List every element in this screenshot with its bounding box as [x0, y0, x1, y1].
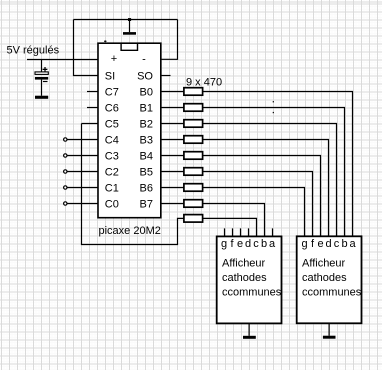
svg-text:g: g: [221, 238, 227, 250]
display 1 pin stub a: [272, 228, 274, 236]
capacitor C1 bottom plate: [35, 77, 48, 80]
wire SO stub: [161, 75, 171, 77]
svg-text:B5: B5: [140, 167, 153, 179]
svg-text:a: a: [349, 238, 356, 250]
connector C0: [64, 202, 67, 205]
wire B0 to R1: [161, 91, 184, 93]
svg-text:C3: C3: [105, 151, 119, 163]
ground bar display 2: [323, 336, 336, 339]
svg-text:picaxe 20M2: picaxe 20M2: [99, 225, 161, 237]
svg-text:g: g: [301, 238, 307, 250]
svg-text:C4: C4: [105, 135, 119, 147]
wire top ground rail: [74, 19, 178, 21]
speck artifact 1: [104, 40, 107, 42]
resistor R9: [184, 215, 203, 223]
svg-text:B1: B1: [140, 103, 153, 115]
display 1 pin stub g: [224, 228, 226, 236]
display U2 box afficheur 1: [217, 236, 282, 323]
svg-text:b: b: [261, 238, 267, 250]
svg-text:e: e: [237, 238, 243, 250]
wire R9 output to display 1 pin c: [203, 218, 257, 236]
ground bar display 1: [243, 336, 256, 339]
ground stem top rail: [129, 20, 131, 33]
wire C5 to bus: [82, 123, 99, 125]
svg-text:C5: C5: [105, 119, 119, 131]
svg-text:cathodes: cathodes: [302, 272, 347, 284]
svg-text:cathodes: cathodes: [222, 272, 267, 284]
wire R4 output to display 2 pin d: [203, 140, 329, 237]
resistor R6: [184, 168, 203, 176]
wire R1 output to display 2 pin a: [203, 92, 353, 237]
wire capacitor stem bottom: [41, 80, 43, 96]
wire C4 from connector: [67, 139, 98, 141]
wire B3 to R4: [161, 139, 184, 141]
svg-text:5V régulés: 5V régulés: [7, 45, 60, 57]
svg-text:B7: B7: [140, 199, 153, 211]
svg-text:B6: B6: [140, 183, 153, 195]
resistor R8: [184, 200, 203, 208]
wire 5V supply rail to + pin: [27, 59, 98, 61]
svg-text:c: c: [334, 238, 340, 250]
svg-text:Afficheur: Afficheur: [222, 258, 266, 270]
wire B7 to R8: [161, 203, 184, 205]
svg-text:C0: C0: [105, 199, 119, 211]
capacitor plus sign: [43, 67, 48, 72]
ground bar top rail: [123, 32, 136, 35]
wire C6 stub: [87, 107, 98, 109]
resistor R4: [184, 136, 203, 144]
junction dot top rail: [128, 18, 131, 21]
wire right vertical to - pin: [161, 20, 178, 60]
svg-text:B0: B0: [140, 87, 153, 99]
svg-text:d: d: [325, 238, 331, 250]
wire B1 to R2: [161, 107, 184, 109]
svg-text:B3: B3: [140, 135, 153, 147]
svg-text:ccommunes: ccommunes: [302, 287, 362, 299]
capacitor minus sign: [43, 81, 48, 83]
wire R6 output to display 2 pin f: [203, 172, 313, 237]
wire capacitor stem top: [41, 60, 43, 73]
svg-text:C6: C6: [105, 103, 119, 115]
wire R8 output to display 1 pin b: [203, 204, 265, 237]
wire B2 to R3: [161, 123, 184, 125]
wire R5 output to display 2 pin e: [203, 156, 321, 237]
IC notch: [121, 44, 137, 51]
connector C3: [64, 154, 67, 157]
capacitor C1 top plate (+): [35, 72, 48, 75]
wire R7 output to display 2 pin g: [203, 188, 305, 237]
svg-text:ccommunes: ccommunes: [222, 287, 282, 299]
speck artifact 3: [273, 112, 274, 113]
op IC U1 picaxe 20M2 box: [98, 43, 161, 218]
wire bus C5 down under IC to resistor R9: [82, 124, 184, 245]
svg-text:+: +: [111, 53, 117, 65]
display 1 pin stub f: [232, 228, 234, 236]
resistor R5: [184, 152, 203, 160]
svg-text:SO: SO: [137, 71, 153, 83]
svg-text:d: d: [245, 238, 251, 250]
svg-text:b: b: [341, 238, 347, 250]
svg-text:C1: C1: [105, 183, 119, 195]
svg-text:C7: C7: [105, 87, 119, 99]
wire C0 from connector: [67, 203, 98, 205]
display 1 pin stub e: [240, 228, 242, 236]
wire R2 output to display 2 pin b: [203, 108, 345, 237]
ground bar capacitor: [35, 96, 48, 99]
wire C2 from connector: [67, 171, 98, 173]
ground stem display 2: [328, 323, 330, 335]
ground stem display 1: [248, 323, 250, 335]
wire B6 to R7: [161, 187, 184, 189]
wire left vertical to SI: [74, 20, 99, 76]
resistor R1: [184, 88, 203, 96]
connector C2: [64, 170, 67, 173]
wire B4 to R5: [161, 155, 184, 157]
wire C1 from connector: [67, 187, 98, 189]
display 1 pin stub d: [248, 228, 250, 236]
resistor R7: [184, 184, 203, 192]
resistor R2: [184, 104, 203, 112]
svg-text:C2: C2: [105, 167, 119, 179]
svg-text:SI: SI: [105, 71, 115, 83]
wire C7 stub: [87, 91, 98, 93]
connector C4: [64, 138, 67, 141]
wire C3 from connector: [67, 155, 98, 157]
wire R3 output to display 2 pin c: [203, 124, 337, 237]
svg-text:Afficheur: Afficheur: [302, 258, 346, 270]
wire B5 to R6: [161, 171, 184, 173]
svg-text:B4: B4: [140, 151, 153, 163]
svg-text:a: a: [269, 238, 276, 250]
speck artifact 2: [273, 101, 274, 102]
connector C1: [64, 186, 67, 189]
svg-text:c: c: [253, 238, 259, 250]
resistor R3: [184, 120, 203, 128]
svg-text:B2: B2: [140, 119, 153, 131]
svg-text:e: e: [317, 238, 323, 250]
svg-text:9 x 470: 9 x 470: [186, 77, 222, 89]
display U3 box afficheur 2: [297, 236, 362, 323]
svg-text:-: -: [142, 53, 146, 65]
